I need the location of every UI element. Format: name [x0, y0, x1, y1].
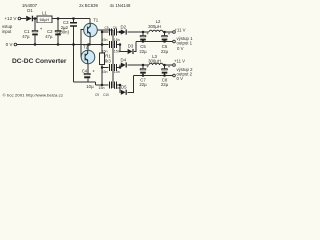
diode D1	[26, 16, 33, 22]
svg-text:15n: 15n	[114, 38, 120, 42]
diode D2	[121, 29, 127, 34]
transistor T2	[81, 50, 95, 64]
junction T1 emitter T2 collector	[87, 43, 90, 45]
svg-text:300µH: 300µH	[148, 24, 161, 29]
resistor R1	[100, 53, 105, 65]
wire C6 leads	[164, 32, 166, 42]
wire L2 to +11V terminal	[163, 31, 173, 33]
svg-text:C5: C5	[104, 26, 108, 30]
output1 0V terminal	[173, 40, 176, 43]
svg-text:300µH: 300µH	[148, 58, 161, 63]
svg-text:68µH: 68µH	[40, 17, 50, 22]
junction C5 bottom	[142, 40, 144, 42]
junction C2 top rail	[57, 17, 59, 19]
transistor T1	[84, 23, 98, 37]
svg-text:15n: 15n	[102, 50, 108, 54]
wire row3	[102, 65, 121, 68]
svg-text:15n: 15n	[102, 38, 108, 42]
svg-text:2x BC639: 2x BC639	[79, 3, 98, 8]
wire T1 base / T2 base vertical	[81, 30, 84, 58]
wire feed line A lower	[101, 65, 103, 86]
capacitor C3	[70, 23, 77, 26]
wire D2 to L2 coil	[127, 31, 149, 33]
svg-text:10µ: 10µ	[86, 84, 94, 89]
svg-text:22µ: 22µ	[161, 49, 169, 54]
inductor L2 coil	[149, 30, 163, 32]
junction node A row3	[101, 66, 103, 68]
wire C4 bottom to corner	[74, 78, 96, 85]
svg-text:D5: D5	[121, 85, 127, 90]
svg-text:L1: L1	[42, 11, 47, 16]
output2 +11V terminal	[173, 64, 176, 67]
svg-text:© bcc 2001 http://www.belza.: © bcc 2001 http://www.belza.cz	[3, 93, 64, 98]
junction C7 bottom	[142, 74, 144, 76]
junction node A row1	[101, 31, 103, 33]
inductor L3 coil	[149, 63, 163, 65]
svg-text:15n: 15n	[114, 70, 120, 74]
junction node A row2	[101, 43, 103, 45]
svg-text:C4: C4	[82, 68, 88, 73]
svg-text:+11 V: +11 V	[174, 58, 185, 63]
svg-text:22µ: 22µ	[139, 82, 147, 87]
junction C6 bottom	[163, 40, 165, 42]
svg-text:DC-DC Converter: DC-DC Converter	[12, 58, 67, 65]
svg-text:output 1: output 1	[177, 41, 193, 46]
wire feed line A upper	[101, 30, 103, 53]
svg-text:D4: D4	[121, 57, 127, 62]
svg-text:input: input	[2, 29, 12, 34]
svg-text:15n: 15n	[102, 70, 108, 74]
junction C3 0V rail	[72, 43, 74, 45]
row4 coupling caps	[109, 82, 116, 89]
output2 0V terminal	[173, 74, 176, 77]
junction row2 right	[119, 43, 121, 45]
diode D5	[121, 90, 127, 95]
svg-text:D2: D2	[121, 24, 127, 29]
svg-text:C6: C6	[113, 26, 117, 30]
junction C5 top	[142, 31, 144, 33]
junction C2 0V rail	[57, 43, 59, 45]
svg-text:C9: C9	[95, 93, 99, 97]
junction C1 top rail	[34, 17, 36, 19]
wire +12V top rail	[21, 18, 90, 20]
svg-text:15n: 15n	[99, 86, 105, 90]
svg-text:+11 V: +11 V	[175, 27, 186, 32]
wire 0V rail output2	[134, 75, 173, 77]
wire L3 to +11V terminal	[163, 64, 173, 66]
wire D4 to L3 coil	[127, 64, 149, 66]
junction C3 top rail	[72, 17, 74, 19]
capacitor C6	[162, 36, 168, 37]
svg-text:+12 V: +12 V	[4, 16, 17, 21]
wire T2 emitter to C4	[87, 64, 89, 74]
wire D5 to 0V rail output2	[127, 76, 133, 93]
diode D3	[128, 49, 134, 54]
wire C3 vertical to 0V rail and down	[73, 19, 75, 83]
wire T2 collector from rail	[87, 45, 89, 51]
junction C8 top	[163, 64, 165, 66]
svg-text:47µ: 47µ	[45, 34, 53, 39]
wire row2 right bend to D3	[117, 45, 128, 52]
svg-text:22µ: 22µ	[139, 49, 147, 54]
svg-text:15n: 15n	[114, 50, 120, 54]
capacitor C1	[32, 31, 38, 32]
junction node A row4	[101, 84, 103, 86]
svg-text:0 V: 0 V	[177, 76, 184, 81]
wire C5 leads	[142, 32, 144, 42]
wire T1 emitter to rail	[89, 37, 91, 45]
wire 0V left rail / row2 feed	[17, 44, 109, 46]
capacitor C4	[84, 74, 90, 75]
svg-text:47µ: 47µ	[22, 34, 30, 39]
capacitor C8	[162, 69, 168, 70]
input terminal +12V	[18, 17, 21, 20]
junction C8 bottom	[163, 74, 165, 76]
svg-text:C10: C10	[103, 93, 109, 97]
junction C6 top	[163, 31, 165, 33]
svg-text:D3: D3	[128, 44, 134, 49]
row1 coupling caps	[109, 29, 116, 36]
svg-text:T2: T2	[83, 45, 89, 50]
junction C1 0V rail	[34, 43, 36, 45]
polarity plus marks	[40, 28, 170, 72]
junction row3 right	[119, 66, 121, 68]
row3 coupling caps	[109, 64, 116, 71]
wire T1 to bus link	[97, 29, 113, 31]
inductor L1 box	[37, 16, 52, 23]
junction row4 right	[119, 84, 121, 86]
wire bus B vertical	[112, 30, 114, 88]
diode D4	[121, 62, 127, 67]
svg-text:3k3: 3k3	[104, 58, 112, 63]
junction C7 top	[142, 64, 144, 66]
wire row4	[96, 85, 121, 92]
svg-text:15n: 15n	[114, 86, 120, 90]
wire C1 leads	[34, 19, 36, 45]
svg-text:0 V: 0 V	[6, 42, 14, 47]
text labels	[2, 3, 193, 90]
wire T1 collector	[89, 19, 91, 24]
input terminal 0V	[14, 43, 17, 46]
junction row1 right	[119, 31, 121, 33]
svg-text:22µ: 22µ	[161, 82, 169, 87]
capacitor C5	[140, 36, 146, 37]
output1 +11V terminal	[173, 31, 176, 34]
wire C7 leads	[142, 65, 144, 76]
row2 coupling caps	[109, 41, 116, 48]
svg-text:(180n): (180n)	[57, 29, 70, 34]
svg-text:0 V: 0 V	[177, 46, 184, 51]
wire 0V rail output1	[134, 42, 173, 52]
wire C2 leads	[57, 19, 59, 45]
wire C8 leads	[164, 65, 166, 76]
wire row1	[102, 31, 121, 33]
svg-text:4x 1N4148: 4x 1N4148	[110, 3, 131, 8]
svg-text:D1: D1	[27, 8, 33, 13]
capacitor C2	[55, 31, 61, 32]
capacitor C7	[140, 69, 146, 70]
svg-text:T1: T1	[93, 18, 99, 23]
